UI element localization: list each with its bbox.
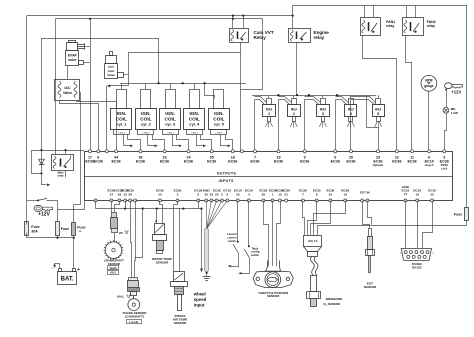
pin output 9 at x304.7 bbox=[303, 150, 306, 153]
pin input 25 at x211.4 bbox=[210, 199, 213, 202]
injector INJ4 body bbox=[345, 105, 357, 117]
svg-text:EC36: EC36 bbox=[274, 159, 283, 163]
wire coil staple bbox=[129, 53, 241, 86]
wire DSUB b bbox=[417, 201, 419, 249]
label Teeth box bbox=[108, 266, 119, 270]
connector crank top bbox=[112, 213, 117, 218]
wire IGN3 neck feed bbox=[170, 83, 172, 89]
wire launch out bbox=[231, 253, 239, 267]
injector INJ2 inlet bbox=[279, 100, 290, 105]
coil IGN4 box bbox=[184, 109, 205, 130]
wire TPS b bbox=[272, 201, 274, 267]
TPS center circle bbox=[265, 272, 281, 288]
wire IAT shield bbox=[179, 209, 181, 272]
pin output 17 at x90.0 bbox=[89, 150, 92, 153]
svg-text:Valve: Valve bbox=[107, 73, 115, 77]
pin input 29 at x263.3 bbox=[262, 199, 265, 202]
node coil bus c bbox=[204, 82, 206, 84]
node junction cam relay b bbox=[242, 15, 244, 17]
key ignition glyph right bbox=[445, 83, 453, 89]
TPS slot bbox=[268, 278, 278, 282]
wire launch pin bbox=[237, 201, 239, 242]
wire main relay rail y38 bbox=[42, 38, 159, 40]
node coil bus b bbox=[182, 82, 184, 84]
wire phase pin a bbox=[131, 201, 132, 281]
svg-text:4: 4 bbox=[248, 193, 250, 197]
pin input 7 at x303 bbox=[302, 199, 305, 202]
wire IGN5 drive to pin bbox=[226, 135, 233, 151]
wire IAC supply from fuse bbox=[74, 93, 81, 205]
gear crank trigger wheel bbox=[105, 242, 122, 259]
pin output 19 at x278.5 bbox=[277, 150, 280, 153]
coil IGN2 neck bbox=[141, 90, 151, 109]
connector crank plug bbox=[111, 218, 118, 229]
valve IAC outer bbox=[55, 80, 80, 101]
node water wire bbox=[155, 221, 157, 223]
relay cam VVT box bbox=[230, 29, 249, 43]
fuse F30 body bbox=[25, 222, 29, 236]
node ground bus x156.8 bbox=[156, 208, 158, 210]
svg-text:IGN.: IGN. bbox=[165, 111, 175, 116]
connector phase top bbox=[129, 278, 138, 281]
svg-text:SENSOR: SENSOR bbox=[364, 285, 378, 289]
coil IGN4 neck bbox=[190, 90, 200, 109]
svg-text:1 GND 4: 1 GND 4 bbox=[167, 132, 174, 134]
coil IGN2 box bbox=[136, 109, 157, 130]
svg-text:Fuse: Fuse bbox=[454, 213, 462, 217]
svg-text:EC36: EC36 bbox=[207, 159, 216, 163]
injector INJ3 spray bbox=[322, 121, 324, 127]
svg-text:OUTPUTS: OUTPUTS bbox=[217, 171, 237, 175]
valve EVAP tab bbox=[79, 61, 84, 65]
svg-text:cyl. 3: cyl. 3 bbox=[165, 122, 176, 127]
LSU body bbox=[311, 276, 317, 292]
coil IGN3 neck bbox=[166, 90, 176, 109]
wire IGN1 neck feed bbox=[121, 83, 123, 89]
wire phase pin b bbox=[135, 201, 136, 281]
solenoid EVAP prong2 bbox=[77, 46, 85, 48]
svg-text:Fuse: Fuse bbox=[61, 227, 69, 231]
svg-text:6: 6 bbox=[316, 193, 318, 197]
coil cam relay bbox=[231, 30, 234, 41]
LSU connector bbox=[308, 252, 318, 257]
pin output 34 at x116.1 bbox=[115, 150, 118, 153]
svg-text:1 GND 4: 1 GND 4 bbox=[142, 132, 149, 134]
wire crank pin b bbox=[115, 201, 120, 213]
svg-text:8: 8 bbox=[197, 193, 199, 197]
injector INJ5 body bbox=[373, 105, 385, 117]
svg-text:switch: switch bbox=[251, 253, 260, 257]
wire IGN2 drive to pin bbox=[153, 135, 165, 151]
svg-text:Valve: Valve bbox=[63, 91, 72, 95]
svg-text:BAT.: BAT. bbox=[61, 277, 74, 283]
svg-text:EC36: EC36 bbox=[300, 159, 309, 163]
wire FAN1 to pin 12 bbox=[363, 36, 397, 152]
wire TPS c bbox=[277, 201, 281, 267]
svg-text:speed: speed bbox=[194, 297, 207, 302]
lamp MIL bbox=[443, 107, 449, 113]
coil IAC right bbox=[74, 82, 77, 98]
valve VVT body bbox=[105, 64, 118, 79]
svg-text:VR: VR bbox=[119, 231, 123, 235]
wire +12V battery rail top bbox=[27, 15, 293, 17]
wire key to fuse bbox=[47, 201, 58, 222]
pin output 6 at x429.2 bbox=[428, 150, 431, 153]
injector INJ5 spray bbox=[378, 121, 380, 127]
pin input 4 at x248.9 bbox=[247, 199, 250, 202]
wire INJ4 supply bbox=[350, 95, 352, 98]
wire wheel speed fan bbox=[205, 201, 207, 229]
pin input 8 at x198.3 bbox=[197, 199, 200, 202]
solenoid EVAP prong3 bbox=[77, 48, 85, 50]
node ground bus x142.7 bbox=[142, 208, 144, 210]
fuse F1A body bbox=[72, 223, 76, 236]
sensor water thread bbox=[157, 241, 164, 251]
fuse right body bbox=[465, 208, 469, 221]
connector phase plug bbox=[128, 281, 139, 288]
pin input 26 at x119.4 bbox=[118, 199, 121, 202]
solenoid VVT top bbox=[106, 56, 117, 64]
key ignition glyph bbox=[34, 205, 42, 211]
wire IGN1 spark bbox=[124, 135, 131, 146]
svg-text:IGN.: IGN. bbox=[214, 111, 224, 116]
node main relay diode bottom bbox=[40, 172, 42, 174]
wire water shield bbox=[156, 209, 158, 224]
wire key to MIL bbox=[446, 90, 448, 107]
svg-text:EC36: EC36 bbox=[331, 159, 340, 163]
node wheel speed cable end bbox=[206, 272, 208, 274]
pin output nc at x106.8 bbox=[105, 150, 108, 153]
svg-text:1 GND 4: 1 GND 4 bbox=[191, 132, 198, 134]
svg-text:2: 2 bbox=[226, 193, 228, 197]
node junction cam relay a bbox=[232, 15, 234, 17]
injector INJ1 body bbox=[263, 105, 276, 117]
wire main relay left leg bbox=[32, 151, 42, 174]
LSU trapezoid bbox=[304, 247, 322, 252]
wire fuse1A top bbox=[73, 205, 75, 223]
svg-text:IGN.: IGN. bbox=[117, 111, 127, 116]
pin input 13 at x125.1 bbox=[124, 199, 127, 202]
svg-text:EC36: EC36 bbox=[136, 159, 145, 163]
wire engine relay pin bbox=[292, 16, 294, 28]
battery terminal plus bbox=[73, 269, 76, 272]
wire IGN3 drive to pin bbox=[177, 135, 189, 151]
wire battery positive bbox=[73, 238, 75, 268]
wire left battery rail vertical bbox=[26, 16, 28, 222]
svg-text:cyl. 4: cyl. 4 bbox=[189, 122, 200, 127]
svg-text:30A: 30A bbox=[31, 230, 38, 234]
wire FAN2 to pin 11 bbox=[406, 36, 412, 152]
wire LSU d bbox=[314, 201, 346, 236]
pin output 6 at x335.3 bbox=[334, 150, 337, 153]
wire coil bus bbox=[120, 83, 246, 85]
pin input 28 at x130.1 bbox=[129, 199, 132, 202]
wire fan rail top bbox=[293, 6, 467, 208]
connector phase stem bbox=[131, 292, 137, 296]
arrowhead wheel speed bbox=[200, 269, 203, 273]
wire IGN4 spark bbox=[197, 135, 203, 146]
svg-text:HALL: HALL bbox=[117, 295, 125, 299]
valve VVT tab bbox=[118, 73, 124, 78]
wire table pin bbox=[248, 201, 250, 247]
pin output 33 at x164.6 bbox=[163, 150, 166, 153]
switch engine relay bbox=[300, 32, 307, 39]
pin input 6 at x316.7 bbox=[315, 199, 318, 202]
pin input nc at x367.4 bbox=[366, 199, 369, 202]
wire INJ3 drive bbox=[304, 100, 306, 152]
pin input 17 at x405.4 bbox=[404, 199, 407, 202]
coil IGN1 tab bbox=[114, 130, 130, 135]
wire wheel speed stub bbox=[198, 201, 200, 209]
svg-text:ch.6: ch.6 bbox=[441, 167, 447, 171]
switch main relay bbox=[64, 159, 71, 167]
fuse F2 body bbox=[56, 222, 60, 236]
node ground bus x125.1 bbox=[124, 208, 126, 210]
pin input 10 at x330.4 bbox=[329, 199, 332, 202]
pin input 32 at x206.2 bbox=[205, 199, 208, 202]
node junction rail bbox=[292, 15, 294, 17]
pin input nc at x95.6 bbox=[94, 199, 97, 202]
svg-text:29: 29 bbox=[262, 193, 266, 197]
wire key tap bbox=[27, 200, 38, 202]
wire cam relay out bbox=[241, 19, 263, 90]
svg-text:SENSOR: SENSOR bbox=[174, 321, 188, 325]
node coil bus a bbox=[157, 82, 159, 84]
injector INJ1 neck bbox=[267, 99, 272, 105]
svg-text:1: 1 bbox=[272, 193, 274, 197]
coil IGN1 box bbox=[111, 109, 132, 130]
wire IGN4 drive to pin bbox=[201, 135, 212, 151]
svg-text:EC36: EC36 bbox=[228, 159, 237, 163]
wire VVT to pin bbox=[106, 86, 108, 152]
battery BAT box bbox=[58, 272, 77, 285]
wire cam relay pin coil bbox=[232, 16, 234, 28]
wire main relay top rail bbox=[31, 150, 84, 152]
wire INJ5 supply bbox=[378, 95, 380, 98]
wire pin1 to ground bus bbox=[95, 201, 97, 209]
svg-text:INJ: INJ bbox=[375, 107, 381, 111]
arrowhead launch bbox=[228, 265, 231, 268]
label 1 tooth box bbox=[127, 320, 142, 324]
cable wheel speed shield bbox=[205, 229, 209, 272]
wire water pin bbox=[160, 201, 163, 224]
svg-text:INJ: INJ bbox=[291, 107, 297, 111]
node junction evap bbox=[89, 18, 91, 20]
wire wheel speed signal bbox=[201, 209, 203, 269]
svg-text:cyl. 1: cyl. 1 bbox=[116, 122, 127, 127]
svg-text:14: 14 bbox=[158, 193, 162, 197]
sensor water connector bbox=[155, 224, 165, 235]
svg-text:1 GND 4: 1 GND 4 bbox=[215, 132, 222, 134]
wire INJ1 supply bbox=[268, 95, 270, 98]
coil IGN3 tab bbox=[163, 130, 179, 135]
wire INJ2 drive bbox=[278, 100, 280, 152]
wire phase shield drop bbox=[135, 209, 143, 258]
coil FAN2 relay bbox=[404, 20, 407, 33]
svg-text:32: 32 bbox=[204, 193, 208, 197]
svg-text:15: 15 bbox=[430, 193, 434, 197]
svg-text:+: + bbox=[77, 267, 80, 273]
label 60-2 box bbox=[108, 271, 119, 275]
pin output 18 at x232.8 bbox=[231, 150, 234, 153]
TPS inner circle bbox=[267, 274, 279, 286]
svg-text:IAC: IAC bbox=[64, 86, 71, 90]
node key contact right bbox=[445, 89, 447, 91]
pin output 20 at x351 bbox=[350, 150, 353, 153]
node main relay diode top bbox=[40, 149, 42, 151]
wire DSUB c bbox=[423, 201, 433, 249]
LSU box bbox=[304, 236, 322, 247]
pin input 21 at x286.1 bbox=[285, 199, 288, 202]
injector INJ3 neck bbox=[321, 99, 326, 105]
svg-text:gauge: gauge bbox=[424, 84, 434, 88]
EGT hex flange bbox=[366, 250, 375, 256]
node ground bus x201.5 bbox=[200, 208, 202, 210]
svg-text:60-2: 60-2 bbox=[110, 271, 116, 275]
wire main relay out stub bbox=[65, 170, 67, 177]
connector DSUB9 shell bbox=[401, 249, 431, 261]
pin input 16 at x345.2 bbox=[344, 199, 347, 202]
pin input 2 at x227.3 bbox=[226, 199, 229, 202]
svg-text:EVAP: EVAP bbox=[68, 54, 78, 58]
switch FAN1 relay bbox=[371, 23, 377, 32]
coil IAC left bbox=[58, 82, 61, 98]
svg-text:relay: relay bbox=[427, 24, 435, 28]
coil FAN1 relay bbox=[362, 20, 365, 33]
svg-text:+12V: +12V bbox=[451, 90, 461, 95]
wire DSUB a bbox=[405, 201, 407, 249]
svg-text:EC36: EC36 bbox=[250, 159, 259, 163]
injector INJ3 nozzle bbox=[322, 117, 325, 122]
connector phase hatch bbox=[128, 288, 140, 292]
arrowhead table bbox=[238, 272, 241, 275]
svg-text:23: 23 bbox=[215, 193, 219, 197]
connector DSUB9 holes bbox=[404, 251, 407, 254]
injector INJ1 spray bbox=[268, 121, 270, 127]
node FAN1 relay switch bbox=[372, 31, 374, 33]
node engine relay switch bbox=[301, 38, 303, 40]
connector crank lower bbox=[112, 229, 118, 233]
svg-text:switch: switch bbox=[228, 239, 237, 243]
node fuse2 junction bbox=[56, 237, 58, 239]
arrowhead VVT intake bbox=[107, 84, 111, 87]
wire crank stem bbox=[114, 233, 116, 242]
coil IGN3 box bbox=[160, 109, 181, 130]
solenoid EVAP top bbox=[67, 43, 78, 51]
pin output 6 at x98.3 bbox=[97, 150, 100, 153]
svg-text:IGN.: IGN. bbox=[141, 111, 151, 116]
injector INJ3 body bbox=[317, 105, 330, 117]
ground wheel speed bbox=[203, 276, 211, 278]
switch cam relay bbox=[240, 32, 246, 39]
svg-text:17: 17 bbox=[404, 192, 408, 196]
svg-text:EC36: EC36 bbox=[94, 159, 103, 163]
coil IGN5 box bbox=[209, 109, 230, 130]
svg-text:2: 2 bbox=[293, 112, 295, 116]
wire INJ1 drive bbox=[254, 100, 256, 152]
svg-text:EC36: EC36 bbox=[346, 159, 355, 163]
node fuse1A junction bbox=[73, 237, 75, 239]
svg-text:FAN1: FAN1 bbox=[386, 20, 395, 24]
svg-text:3: 3 bbox=[322, 112, 324, 116]
sensor IAT thread bbox=[175, 287, 184, 295]
injector INJ4 spray bbox=[350, 121, 352, 127]
svg-text:10: 10 bbox=[236, 193, 240, 197]
solenoid EVAP prong end bbox=[84, 43, 86, 50]
pin output 35 at x211.7 bbox=[210, 150, 213, 153]
svg-text:WIDEBAND: WIDEBAND bbox=[326, 297, 343, 301]
svg-text:5: 5 bbox=[377, 112, 379, 116]
wire unlabeled pin drop bbox=[240, 42, 242, 151]
svg-text:cyl. 2: cyl. 2 bbox=[141, 122, 152, 127]
wire IAC coilA to pin 6 bbox=[60, 101, 99, 151]
wire IGN3 spark bbox=[173, 135, 179, 146]
battery terminal minus bbox=[59, 269, 62, 272]
injector INJ5 nozzle bbox=[377, 117, 381, 122]
LSU cable bbox=[310, 257, 318, 276]
pin output 12 at x396.9 bbox=[395, 150, 398, 153]
injector INJ1 nozzle bbox=[268, 117, 271, 122]
svg-text:5: 5 bbox=[221, 193, 223, 197]
svg-text:21: 21 bbox=[284, 193, 288, 197]
wire FAN1 pin coil bbox=[364, 5, 366, 17]
wire LSU c bbox=[311, 201, 331, 236]
coil IGN2 tab bbox=[138, 130, 154, 135]
diode flyback main relay bbox=[41, 150, 43, 173]
sensor water flange bbox=[153, 235, 167, 241]
TPS hole left bbox=[256, 277, 259, 280]
wire RPM to pin step.C bbox=[428, 91, 430, 151]
switch table bbox=[248, 245, 250, 247]
node cam relay switch bbox=[241, 38, 243, 40]
wire IGN1 drive to pin bbox=[128, 135, 141, 151]
relay FAN1 box bbox=[361, 18, 381, 36]
wire main relay switch pin bbox=[65, 150, 67, 155]
pin input nc at x362.1 bbox=[361, 199, 364, 202]
svg-text:valve: valve bbox=[68, 58, 77, 62]
wire EVAP prong link bbox=[85, 46, 90, 48]
pin output 24 at x188.5 bbox=[187, 150, 190, 153]
pin output nc at x241.9 bbox=[240, 150, 243, 153]
injector INJ1 inlet bbox=[255, 100, 265, 105]
ECU divider outputs/inputs bbox=[84, 176, 453, 178]
pin input nc at x135.1 bbox=[134, 199, 137, 202]
injector INJ2 body bbox=[288, 105, 301, 117]
svg-text:15: 15 bbox=[278, 193, 282, 197]
wire FAN2 pin coil bbox=[406, 5, 408, 17]
node main relay top pin bbox=[64, 149, 66, 151]
wire main relay drop left bbox=[41, 38, 43, 150]
svg-text:1: 1 bbox=[268, 112, 270, 116]
sensor water tip bbox=[157, 251, 163, 254]
pin output 11 at x412.1 bbox=[411, 150, 414, 153]
pin input 15 at x432 bbox=[431, 199, 434, 202]
wire EVAP supply drop bbox=[90, 19, 92, 152]
solenoid VVT cap bbox=[110, 52, 113, 56]
svg-text:(CAMSHAFT): (CAMSHAFT) bbox=[125, 315, 144, 319]
wire engine relay to injector bus bbox=[296, 42, 298, 95]
ECU box bbox=[85, 152, 453, 201]
svg-text:1.2W: 1.2W bbox=[451, 111, 458, 115]
pin input 15 at x280 bbox=[279, 199, 282, 202]
svg-text:Teeth: Teeth bbox=[109, 266, 117, 270]
injector INJ2 spray bbox=[293, 121, 295, 127]
svg-text:Fuse: Fuse bbox=[77, 226, 85, 230]
LSU tip bbox=[311, 299, 317, 307]
svg-text:SENSOR: SENSOR bbox=[156, 260, 170, 264]
pin input 10 at x237.8 bbox=[236, 199, 239, 202]
gauge RPM circle bbox=[421, 75, 437, 91]
